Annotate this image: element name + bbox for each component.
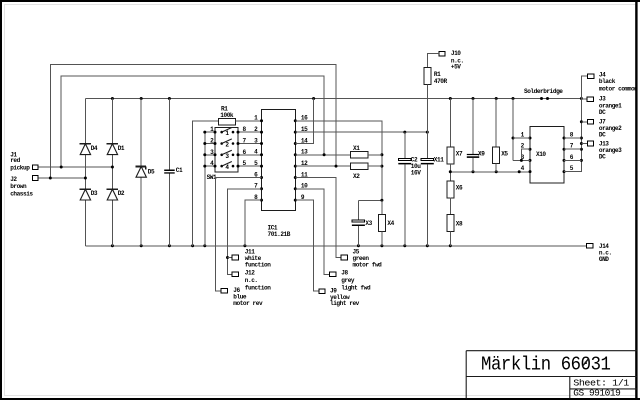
svg-text:R1: R1 <box>434 71 441 78</box>
svg-text:chassis: chassis <box>10 190 33 197</box>
svg-text:100k: 100k <box>220 112 234 119</box>
wire ground bus <box>85 245 586 247</box>
junction dots on right bus <box>580 120 583 123</box>
wire J10 to R1 470R <box>427 54 439 68</box>
svg-text:brown: brown <box>10 183 27 190</box>
resistor X2 <box>350 163 368 170</box>
wire X1 to pin16 column <box>368 154 382 156</box>
wire IC1 pin 12 to X2 <box>295 165 350 167</box>
svg-text:light fwd: light fwd <box>341 285 371 292</box>
svg-text:light rev: light rev <box>330 300 360 307</box>
wire X10 pin 7 stub <box>564 148 581 150</box>
capacitor X11 <box>426 132 428 158</box>
svg-text:J10: J10 <box>451 50 461 57</box>
resistor R1 470R <box>424 68 431 85</box>
svg-text:function: function <box>245 261 271 268</box>
connector J8 <box>330 272 336 277</box>
wire line-A J2 to J5/X2 net (top outer) <box>50 65 336 179</box>
connector J9 <box>319 289 325 294</box>
svg-text:X3: X3 <box>365 220 372 227</box>
wire X2 to pin16 column <box>368 165 382 167</box>
IC1 pin terminal dots <box>260 119 263 122</box>
svg-text:X2: X2 <box>353 173 360 180</box>
wire J1 row to bridge <box>38 166 113 168</box>
wire D5 column <box>140 99 142 167</box>
wire R1 470R to pin15 net <box>426 85 428 132</box>
dip switch SW1 box <box>215 128 238 172</box>
wire X6 to X8 <box>449 198 451 215</box>
svg-text:red: red <box>10 157 20 164</box>
resistor R1 100k <box>219 119 236 126</box>
resistor X1 <box>350 152 368 159</box>
wire bridge left column D4/D3 <box>84 99 86 144</box>
junction dots on ground bus <box>111 244 114 247</box>
svg-text:black: black <box>599 78 616 85</box>
wire C1 column <box>168 99 170 170</box>
IC X10 body <box>530 126 564 183</box>
wire SW1 left rail to ground <box>204 132 206 246</box>
solderbridge junction dots <box>540 97 543 100</box>
svg-text:grey: grey <box>341 277 355 284</box>
wire IC1 pin 7 to J11/J12 <box>228 189 262 275</box>
wire X7 column <box>449 99 451 148</box>
capacitor X3 <box>352 220 365 222</box>
switch SW1 pole 4 row <box>205 165 215 167</box>
svg-text:D2: D2 <box>118 190 125 197</box>
connector J6 <box>221 289 227 294</box>
wire X3 to ground <box>357 226 359 246</box>
wire X10 pin 8 stub <box>564 137 581 139</box>
capacitor C1 <box>164 170 175 172</box>
wire right bus J4 to X10 pin 5 <box>564 76 587 171</box>
resistor X5 <box>495 99 497 147</box>
wire X-rail <box>449 164 451 181</box>
resistor X4 <box>381 200 383 214</box>
connector J3 <box>581 98 587 100</box>
wire X10 pin 6 stub <box>564 159 581 161</box>
svg-text:DC: DC <box>599 153 606 160</box>
svg-text:J8: J8 <box>341 270 348 277</box>
switch SW1 pole 1 row <box>205 131 215 133</box>
wire R1-100k left leg to ground <box>193 121 219 246</box>
switch SW1 pole 3 row <box>205 154 215 156</box>
resistor X7 <box>447 147 454 164</box>
svg-text:Märklin 66031: Märklin 66031 <box>481 353 611 375</box>
wire bridge right column D1/D2 <box>111 99 113 144</box>
resistor X8 <box>447 215 454 232</box>
resistor X6 <box>447 181 454 198</box>
wire top bus to X10 pin 1 and pin 3 <box>512 99 514 161</box>
svg-text:X8: X8 <box>456 221 463 228</box>
svg-text:701.21B: 701.21B <box>268 231 291 238</box>
svg-text:X10: X10 <box>536 151 546 158</box>
svg-text:470R: 470R <box>434 78 448 85</box>
svg-text:X5: X5 <box>501 151 508 158</box>
wire line-B J1 to J8/X1 net (top inner) <box>61 76 324 167</box>
svg-text:J2: J2 <box>10 176 17 183</box>
svg-text:D3: D3 <box>91 190 98 197</box>
svg-text:C1: C1 <box>176 167 183 174</box>
svg-text:X4: X4 <box>387 220 394 227</box>
svg-text:D5: D5 <box>148 169 155 176</box>
svg-text:D1: D1 <box>118 145 125 152</box>
svg-text:pickup: pickup <box>10 164 30 171</box>
X10 pin terminal dots <box>529 137 532 140</box>
connector J1 <box>32 165 38 170</box>
wire IC1 pin 11 to J5 <box>295 178 341 258</box>
junction dots on top bus <box>111 97 114 100</box>
connector J4 <box>587 74 593 79</box>
wire IC1 pin 6 to J6 <box>216 178 262 291</box>
diode D1 <box>107 143 118 145</box>
connector J5 <box>341 255 347 260</box>
wire IC1 pin 14 to top bus <box>295 99 313 144</box>
connector J14 <box>587 244 593 249</box>
op IC1 701.21B body <box>262 110 296 211</box>
svg-text:X1: X1 <box>353 145 360 152</box>
connector J10 <box>439 51 445 56</box>
connector J12 <box>232 272 238 277</box>
wire X-rail to X10 pin 4 <box>529 171 531 173</box>
diode D2 <box>107 188 118 190</box>
capacitor X9 <box>472 99 474 154</box>
connector J11 <box>232 255 238 260</box>
svg-text:DC: DC <box>599 132 606 139</box>
wire IC1 pin 13 to X1 <box>295 154 350 156</box>
svg-text:J12: J12 <box>245 270 255 277</box>
svg-text:D4: D4 <box>91 145 98 152</box>
wire R1 to IC1 pin 1 <box>236 120 262 122</box>
svg-text:GS 991019: GS 991019 <box>573 387 620 398</box>
wire IC1 pin 9 to J9 <box>295 200 319 291</box>
capacitor C2 <box>404 132 406 158</box>
wire IC1 pin 16 to X1/X2/X3/X4 net <box>295 121 382 201</box>
diode D4 <box>80 143 91 145</box>
svg-text:16V: 16V <box>411 170 421 177</box>
wire top supply bus <box>85 98 581 100</box>
svg-text:+5V: +5V <box>451 64 461 71</box>
wire X10 pin 2 to pin 3 <box>521 149 530 160</box>
svg-text:X6: X6 <box>456 185 463 192</box>
svg-text:motor rev: motor rev <box>233 300 263 307</box>
switch SW1 pole 2 row <box>205 143 215 145</box>
svg-text:GND: GND <box>599 256 609 263</box>
svg-text:function: function <box>245 285 271 292</box>
svg-text:DC: DC <box>599 109 606 116</box>
svg-text:X7: X7 <box>456 151 463 158</box>
diode D3 <box>80 188 91 190</box>
wire X3/X4 top link <box>358 199 382 201</box>
wire IC1 pin 8 to ground <box>245 200 262 246</box>
svg-text:motor common: motor common <box>599 86 638 93</box>
title block <box>466 351 637 399</box>
svg-text:X9: X9 <box>478 151 485 158</box>
connector J7 <box>581 121 587 123</box>
zener diode D5 <box>136 166 147 168</box>
svg-text:motor fwd: motor fwd <box>353 261 383 268</box>
wire J2 row to bridge <box>38 177 86 179</box>
connector J2 <box>32 176 38 181</box>
svg-text:n.c.: n.c. <box>245 277 258 284</box>
svg-text:Solderbridge: Solderbridge <box>524 88 563 95</box>
wire IC1 pin 15 to C2/X11/R1-470R net <box>295 131 427 133</box>
connector J13 <box>581 143 587 145</box>
svg-text:X11: X11 <box>434 156 444 163</box>
wire IC1 pin 10 to J8 <box>295 189 329 275</box>
